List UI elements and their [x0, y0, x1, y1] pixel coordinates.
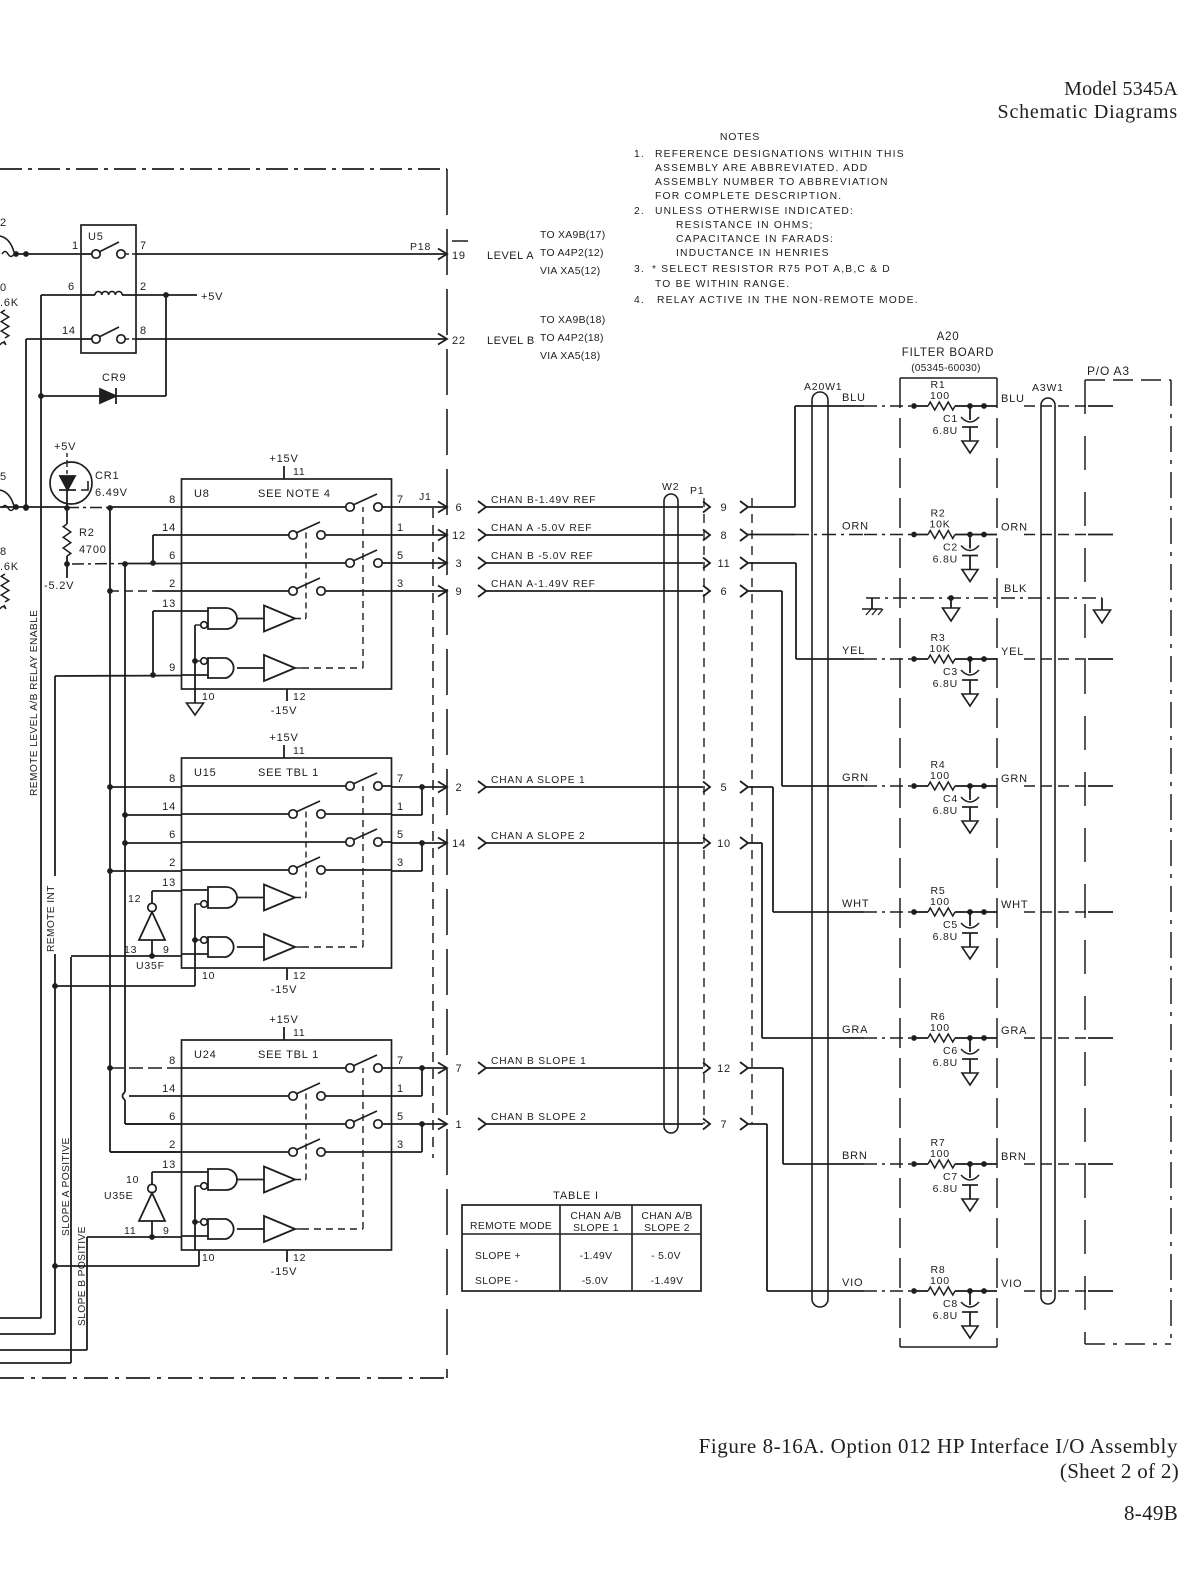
- svg-text:ORN: ORN: [1001, 522, 1028, 534]
- wire: U15 pin 14 row: [125, 814, 182, 816]
- node: U8 -15V supply pin 12: [271, 689, 307, 717]
- svg-text:11: 11: [717, 558, 730, 570]
- op-amp U15 (quad analog switch box): [182, 758, 392, 968]
- resistor (left edge, .6K lower): [0, 546, 19, 609]
- svg-text:CHAN A-1.49V REF: CHAN A-1.49V REF: [491, 579, 596, 590]
- svg-text:U24: U24: [194, 1049, 217, 1061]
- wire: U8 pin 9 row: [55, 675, 182, 678]
- svg-text:YEL: YEL: [842, 645, 865, 657]
- capacitor C3 6.8U: [933, 659, 979, 694]
- wire: U24 pin 10 exit: [55, 1250, 199, 1266]
- svg-text:14: 14: [452, 838, 466, 850]
- wire: U15 pin 9 row: [71, 953, 182, 959]
- wire: U8 pin 14 drop to pin 6 row: [150, 535, 181, 566]
- svg-text:10: 10: [202, 691, 215, 703]
- svg-text:CAPACITANCE IN FARADS:: CAPACITANCE IN FARADS:: [676, 234, 834, 245]
- svg-text:BLU: BLU: [1001, 393, 1025, 405]
- svg-text:2.: 2.: [634, 206, 645, 217]
- wire: LEVEL A row (U5 pin7 to P18-19): [136, 249, 447, 260]
- svg-text:.6K: .6K: [0, 561, 19, 573]
- svg-text:FILTER BOARD: FILTER BOARD: [902, 347, 994, 359]
- node: A20 filter board outline: [900, 378, 997, 1347]
- svg-text:REMOTE INT: REMOTE INT: [46, 885, 57, 952]
- svg-text:6: 6: [68, 281, 75, 293]
- wire: P1-11 to YEL row: [748, 562, 796, 564]
- svg-text:8: 8: [169, 1055, 176, 1067]
- svg-text:TABLE I: TABLE I: [553, 1190, 599, 1202]
- wire: U15 pin 2 row: [110, 870, 182, 872]
- capacitor C5 6.8U: [933, 912, 979, 947]
- svg-text:VIO: VIO: [1001, 1278, 1022, 1290]
- svg-text:12: 12: [293, 1252, 306, 1264]
- svg-text:14: 14: [162, 522, 176, 534]
- wire: U24 upper control (dashed): [295, 1179, 306, 1181]
- svg-text:10: 10: [202, 970, 215, 982]
- wire: U8 pin 10 bubble line: [192, 625, 198, 689]
- svg-text:6.8U: 6.8U: [933, 931, 958, 943]
- svg-text:8: 8: [169, 494, 176, 506]
- node: P1 connector dashed lines: [703, 498, 705, 1124]
- svg-text:11: 11: [293, 1027, 306, 1039]
- svg-text:11: 11: [293, 745, 306, 757]
- svg-text:FOR COMPLETE DESCRIPTION.: FOR COMPLETE DESCRIPTION.: [655, 191, 842, 202]
- inverter U35F: [124, 891, 182, 972]
- svg-text:REMOTE LEVEL A/B RELAY ENA: REMOTE LEVEL A/B RELAY ENABLE: [29, 610, 40, 796]
- node: U24 switch pins 2-3: [182, 1139, 392, 1156]
- svg-text:CHAN B-1.49V REF: CHAN B-1.49V REF: [491, 495, 596, 506]
- wire: REMOTE INT rail: [0, 676, 58, 1334]
- svg-text:8: 8: [721, 530, 728, 542]
- node: U24 pin labels right: [397, 1055, 404, 1151]
- wire: LEVEL B row (U5 pin8 to P18-22): [136, 334, 447, 345]
- node: U15 NAND gate upper: [182, 887, 238, 908]
- wire: REMOTE LEVEL A/B RELAY ENABLE rail: [0, 295, 41, 1318]
- wire: U15 pin 10 bubble line: [192, 904, 198, 968]
- svg-text:6.8U: 6.8U: [933, 678, 958, 690]
- svg-text:SEE TBL 1: SEE TBL 1: [258, 1049, 319, 1061]
- svg-text:6.8U: 6.8U: [933, 425, 958, 437]
- resistor R2 4700: [63, 508, 106, 564]
- svg-text:(05345-60030): (05345-60030): [911, 363, 981, 374]
- svg-text:100: 100: [930, 770, 950, 782]
- svg-text:8: 8: [140, 325, 147, 337]
- svg-text:CHAN A/B: CHAN A/B: [641, 1211, 692, 1222]
- svg-text:U35E: U35E: [104, 1190, 133, 1202]
- svg-text:U15: U15: [194, 767, 217, 779]
- svg-text:+5V: +5V: [201, 291, 223, 303]
- ground (below C2): [962, 570, 978, 582]
- svg-text:BLK: BLK: [1004, 583, 1027, 595]
- svg-text:6: 6: [169, 1111, 176, 1123]
- svg-text:12: 12: [717, 1063, 731, 1075]
- svg-text:+5V: +5V: [54, 441, 76, 453]
- svg-text:13: 13: [162, 877, 176, 889]
- svg-text:100: 100: [930, 1022, 950, 1034]
- svg-text:+15V: +15V: [269, 732, 298, 744]
- node: U5 pin labels: [62, 240, 147, 337]
- svg-text:4700: 4700: [79, 544, 107, 556]
- wire: U8 pin 13 drop to pin 9 row: [150, 611, 181, 678]
- ground (P/O A3, BLK net): [1094, 598, 1111, 623]
- node: U15 +15V supply pin 11: [269, 732, 305, 758]
- svg-text:CHAN A SLOPE 2: CHAN A SLOPE 2: [491, 831, 586, 842]
- wire: YEL row: [796, 645, 1113, 659]
- svg-text:7: 7: [397, 1055, 404, 1067]
- svg-text:SLOPE 2: SLOPE 2: [644, 1223, 690, 1234]
- svg-text:5: 5: [721, 782, 728, 794]
- svg-text:U8: U8: [194, 488, 210, 500]
- svg-text:SLOPE A POSITIVE: SLOPE A POSITIVE: [61, 1137, 72, 1236]
- resistor R7 100: [911, 1137, 987, 1168]
- svg-text:TO A4P2(18): TO A4P2(18): [540, 333, 604, 344]
- svg-text:GRN: GRN: [1001, 773, 1028, 785]
- node: U15 buffer upper: [237, 885, 295, 911]
- svg-text:CHAN A/B: CHAN A/B: [570, 1211, 621, 1222]
- svg-text:P18: P18: [410, 241, 431, 253]
- ground (below C1): [962, 441, 978, 453]
- svg-text:A20W1: A20W1: [804, 381, 842, 393]
- node: U8 switch pins 14-1: [182, 522, 392, 539]
- svg-text:6.8U: 6.8U: [933, 554, 958, 566]
- wire: SLOPE A POSITIVE rail: [0, 957, 71, 1363]
- svg-text:W2: W2: [662, 481, 679, 493]
- op-amp U24 (quad analog switch box): [182, 1040, 392, 1250]
- svg-text:TO A4P2(12): TO A4P2(12): [540, 248, 604, 259]
- svg-text:10K: 10K: [929, 643, 950, 655]
- svg-text:2: 2: [0, 217, 7, 229]
- node: U5 contact A (pins 1-7): [81, 242, 136, 258]
- svg-text:VIA XA5(18): VIA XA5(18): [540, 351, 600, 362]
- svg-text:14: 14: [162, 1083, 176, 1095]
- svg-text:1: 1: [72, 240, 79, 252]
- wire: U24 pin 8 row: [110, 1067, 182, 1069]
- node: U8 pin labels right: [397, 494, 404, 590]
- node: left-edge partial component (CR area, cut off): [0, 471, 14, 511]
- svg-text:13: 13: [124, 944, 137, 956]
- wire: CHAN B SLOPE 2 row (J1-1 to P1-7): [392, 1112, 749, 1152]
- ground (below C3): [962, 694, 978, 706]
- svg-text:CHAN A SLOPE 1: CHAN A SLOPE 1: [491, 775, 586, 786]
- node: U15 switch pins 8-7: [182, 773, 392, 790]
- resistor R3 10K: [911, 632, 987, 663]
- wire: CHAN B -5.0V REF row (J1-3 to P1-11): [392, 551, 749, 570]
- wire: BLU row: [795, 392, 1113, 406]
- inverter U35E: [104, 1172, 182, 1237]
- svg-text:TO BE WITHIN RANGE.: TO BE WITHIN RANGE.: [655, 279, 790, 290]
- node: U8 NAND gate lower: [182, 658, 234, 678]
- svg-text:2: 2: [169, 1139, 176, 1151]
- svg-text:* SELECT RESISTOR R75 POT A,B,: * SELECT RESISTOR R75 POT A,B,C & D: [652, 264, 891, 275]
- svg-text:12: 12: [452, 530, 466, 542]
- node: destination text TO XA9B(17)...: [540, 230, 605, 277]
- svg-text:C6: C6: [943, 1045, 958, 1057]
- capacitor C8 6.8U: [933, 1291, 979, 1326]
- wire: U5 pin14 row: [26, 338, 81, 340]
- wire: CHAN B SLOPE 1 row (J1-7 to P1-12): [392, 1056, 749, 1096]
- svg-text:14: 14: [62, 325, 76, 337]
- wire: U8 pin 6 row: [72, 563, 125, 566]
- node: U15 -15V supply pin 12: [271, 968, 307, 996]
- svg-text:LEVEL B: LEVEL B: [487, 335, 535, 347]
- ground (below C8): [962, 1326, 978, 1338]
- node: U24 buffer upper: [237, 1167, 295, 1193]
- wire: U5 pin1 row from left edge: [14, 253, 81, 255]
- resistor R6 100: [911, 1011, 987, 1042]
- node: P/O A3 box: [1085, 364, 1171, 1344]
- svg-text:SEE TBL 1: SEE TBL 1: [258, 767, 319, 779]
- capacitor C1 6.8U: [933, 406, 979, 441]
- node: U15 pin labels right: [397, 773, 404, 869]
- wire: CHAN A -5.0V REF row (J1-12 to P1-8): [392, 523, 749, 542]
- ground (below C7): [962, 1199, 978, 1211]
- svg-text:WHT: WHT: [842, 898, 869, 910]
- svg-text:CR1: CR1: [95, 470, 119, 482]
- svg-text:9: 9: [456, 586, 463, 598]
- svg-text:3: 3: [397, 578, 404, 590]
- svg-text:1: 1: [397, 1083, 404, 1095]
- node: vertical label SLOPE B POSITIVE: [76, 1220, 86, 1328]
- node: U8 buffer lower: [237, 655, 295, 681]
- svg-text:9: 9: [721, 502, 728, 514]
- wire: U8 pin 8 row (CR1 node): [0, 504, 182, 510]
- wire: ORN row: [842, 521, 1113, 535]
- svg-text:CHAN B SLOPE 1: CHAN B SLOPE 1: [491, 1056, 587, 1067]
- svg-text:6.49V: 6.49V: [95, 487, 128, 499]
- svg-text:A20: A20: [937, 331, 960, 343]
- svg-text:2: 2: [169, 857, 176, 869]
- svg-text:-1.49V: -1.49V: [651, 1276, 684, 1287]
- svg-text:UNLESS OTHERWISE INDICATED:: UNLESS OTHERWISE INDICATED:: [655, 206, 854, 217]
- wire: GRN row: [782, 772, 1113, 786]
- node: junction dot +5V/CR9: [163, 292, 169, 298]
- wire: U15 lower control (dashed): [295, 946, 302, 948]
- svg-text:ASSEMBLY ARE ABBREVIATED. ADD: ASSEMBLY ARE ABBREVIATED. ADD: [655, 163, 868, 174]
- svg-text:4.: 4.: [634, 295, 645, 306]
- capacitor C2 6.8U: [933, 535, 979, 570]
- svg-text:8-49B: 8-49B: [1124, 1501, 1178, 1525]
- svg-text:CHAN B -5.0V REF: CHAN B -5.0V REF: [491, 551, 593, 562]
- svg-text:12: 12: [293, 691, 306, 703]
- svg-text:6: 6: [456, 502, 463, 514]
- wire: BRN row: [783, 1150, 1113, 1164]
- svg-text:SLOPE -: SLOPE -: [475, 1276, 518, 1287]
- svg-text:U5: U5: [88, 231, 104, 243]
- svg-text:2: 2: [140, 281, 147, 293]
- svg-text:A3W1: A3W1: [1032, 382, 1064, 394]
- node: U15 pin labels left: [162, 773, 176, 889]
- ground (U8 pin 10): [187, 689, 204, 715]
- wire: U8 pin 2 row (dashed from rail A): [110, 590, 155, 592]
- node: U8 switch pins 6-5: [182, 550, 392, 567]
- svg-text:NOTES: NOTES: [720, 131, 760, 143]
- diode CR1 (zener, 6.49V): [50, 462, 128, 504]
- svg-text:RELAY ACTIVE IN THE NON-REMO: RELAY ACTIVE IN THE NON-REMOTE MODE.: [657, 295, 919, 306]
- svg-text:R2: R2: [79, 527, 95, 539]
- wire: CR1 cathode to node: [66, 504, 68, 508]
- capacitor C7 6.8U: [933, 1164, 979, 1199]
- wire: CHAN A SLOPE 1 row (J1-2 to P1-5): [392, 775, 749, 815]
- svg-text:BLU: BLU: [842, 392, 866, 404]
- node: U8 switch pins 8-7: [182, 494, 392, 511]
- svg-text:BRN: BRN: [842, 1150, 868, 1162]
- resistor R1 100: [911, 379, 987, 410]
- svg-text:7: 7: [721, 1119, 728, 1131]
- svg-text:10K: 10K: [929, 519, 950, 531]
- svg-text:100: 100: [930, 390, 950, 402]
- node: U15 NAND gate lower: [182, 937, 234, 957]
- wire: U24 pin 6 row: [125, 1123, 182, 1125]
- node: U8 NAND gate upper: [182, 608, 238, 629]
- node: U24 NAND gate upper: [182, 1169, 238, 1190]
- wire: +5V dashed lead into CR1: [66, 453, 68, 463]
- svg-text:5: 5: [397, 550, 404, 562]
- svg-text:6.8U: 6.8U: [933, 1310, 958, 1322]
- node: U24 buffer lower: [237, 1216, 295, 1242]
- svg-text:100: 100: [930, 896, 950, 908]
- ground (below C6): [962, 1073, 978, 1085]
- svg-text:7: 7: [397, 773, 404, 785]
- svg-text:3: 3: [397, 857, 404, 869]
- svg-text:0: 0: [0, 282, 7, 294]
- svg-text:1: 1: [397, 801, 404, 813]
- node: J1 connector dashed line: [432, 508, 434, 1158]
- wire: rail B (R2 node distribution): [122, 561, 181, 1124]
- node: P18 pin 19 / LEVEL A: [450, 241, 534, 262]
- wire: P1-9 to BLU row: [748, 506, 795, 508]
- node: U8 +15V supply pin 11: [269, 453, 305, 479]
- svg-text:C7: C7: [943, 1171, 958, 1183]
- node: U8 buffer upper: [237, 606, 295, 632]
- wire: U15 pin 8 row: [110, 786, 182, 788]
- node: P18 pin 22 / LEVEL B: [450, 330, 535, 347]
- svg-text:2: 2: [169, 578, 176, 590]
- wire: GRA row: [762, 1024, 1113, 1038]
- svg-text:13: 13: [162, 1159, 176, 1171]
- resistor R5 100: [911, 885, 987, 916]
- wire: U5 pin2 to +5V node: [136, 294, 197, 296]
- node: NOTES block: [634, 131, 919, 306]
- wire: P1-6 to GRN row riser: [748, 590, 782, 592]
- wire: U8 upper control (dashed): [295, 618, 306, 620]
- svg-text:12: 12: [128, 893, 141, 905]
- svg-text:-15V: -15V: [271, 1266, 297, 1278]
- svg-text:BRN: BRN: [1001, 1151, 1027, 1163]
- diode CR9: [38, 295, 166, 404]
- svg-text:REMOTE MODE: REMOTE MODE: [470, 1221, 552, 1232]
- svg-text:6.8U: 6.8U: [933, 1057, 958, 1069]
- node: U24 -15V supply pin 12: [271, 1250, 307, 1278]
- resistor R8 100: [911, 1264, 987, 1295]
- wire: P1-12 to BRN row riser: [748, 1067, 783, 1069]
- svg-text:SLOPE B POSITIVE: SLOPE B POSITIVE: [77, 1226, 88, 1326]
- svg-text:SLOPE +: SLOPE +: [475, 1251, 521, 1262]
- svg-text:3.: 3.: [634, 264, 645, 275]
- svg-text:CHAN B SLOPE 2: CHAN B SLOPE 2: [491, 1112, 587, 1123]
- svg-text:11: 11: [124, 1225, 137, 1237]
- wire: U24 pin 9 row: [87, 1234, 182, 1240]
- node: U15 switch pins 14-1: [182, 801, 392, 818]
- svg-text:100: 100: [930, 1148, 950, 1160]
- wire: P1-8 to ORN row: [748, 534, 795, 536]
- svg-text:7: 7: [397, 494, 404, 506]
- svg-text:22: 22: [452, 335, 466, 347]
- svg-text:10: 10: [126, 1174, 139, 1186]
- svg-text:WHT: WHT: [1001, 899, 1028, 911]
- wire: assembly border bottom (dash-dot): [0, 1377, 447, 1379]
- wire: U24 pin 2 row: [110, 1151, 182, 1153]
- svg-text:100: 100: [930, 1275, 950, 1287]
- svg-text:-5.2V: -5.2V: [44, 580, 74, 592]
- node: U5 contact B (pins 14-8): [81, 327, 136, 343]
- svg-text:P1: P1: [690, 485, 704, 497]
- wire: SLOPE B POSITIVE rail: [0, 1237, 87, 1350]
- wire: BLK ground row: [866, 583, 1102, 598]
- ground (chassis, left of board): [862, 598, 883, 615]
- node: U15 switch pins 6-5: [182, 829, 392, 846]
- svg-text:.6K: .6K: [0, 297, 19, 309]
- resistor R4 100: [911, 759, 987, 790]
- svg-text:6.8U: 6.8U: [933, 1183, 958, 1195]
- svg-text:-15V: -15V: [271, 984, 297, 996]
- wire: U15 pin 10 exit: [55, 968, 195, 986]
- svg-text:8: 8: [0, 546, 7, 558]
- svg-text:J1: J1: [419, 491, 432, 503]
- svg-text:5: 5: [397, 829, 404, 841]
- ground (inside filter board, BLK net): [943, 595, 960, 621]
- node: vertical label REMOTE INT: [46, 876, 56, 954]
- svg-text:C4: C4: [943, 793, 958, 805]
- wire: WHT row: [773, 898, 1113, 912]
- svg-text:ASSEMBLY NUMBER TO ABBREVIATIO: ASSEMBLY NUMBER TO ABBREVIATION: [655, 177, 889, 188]
- svg-text:INDUCTANCE IN HENRIES: INDUCTANCE IN HENRIES: [676, 248, 830, 259]
- wire: U24 lower control (dashed): [295, 1228, 302, 1230]
- capacitor C6 6.8U: [933, 1038, 979, 1073]
- svg-text:CHAN A -5.0V REF: CHAN A -5.0V REF: [491, 523, 592, 534]
- svg-text:6: 6: [169, 829, 176, 841]
- wire: U8 lower control (dashed): [295, 667, 302, 669]
- svg-text:+15V: +15V: [269, 453, 298, 465]
- svg-text:YEL: YEL: [1001, 646, 1024, 658]
- svg-text:8: 8: [169, 773, 176, 785]
- wire: CHAN B-1.49V REF row (J1-6 to P1-9): [392, 495, 749, 514]
- capacitor C4 6.8U: [933, 786, 979, 821]
- svg-text:U35F: U35F: [136, 960, 165, 972]
- svg-text:10: 10: [717, 838, 731, 850]
- relay U5: [81, 225, 136, 353]
- svg-text:9: 9: [163, 1225, 170, 1237]
- node: A20 FILTER BOARD title: [902, 331, 994, 374]
- node: U24 +15V supply pin 11: [269, 1014, 305, 1040]
- svg-text:SEE NOTE 4: SEE NOTE 4: [258, 488, 331, 500]
- svg-text:GRA: GRA: [842, 1024, 868, 1036]
- svg-text:+15V: +15V: [269, 1014, 298, 1026]
- svg-text:TO XA9B(17): TO XA9B(17): [540, 230, 605, 241]
- svg-text:-1.49V: -1.49V: [580, 1251, 613, 1262]
- svg-text:C8: C8: [943, 1298, 958, 1310]
- node: cable A20W1: [804, 381, 842, 1307]
- ground (below C5): [962, 947, 978, 959]
- svg-text:C1: C1: [943, 413, 958, 425]
- svg-text:6.8U: 6.8U: [933, 805, 958, 817]
- svg-text:2: 2: [456, 782, 463, 794]
- node: U24 pin labels left: [162, 1055, 176, 1171]
- svg-text:1: 1: [397, 522, 404, 534]
- wire: U24 pin 14 row: [129, 1095, 182, 1097]
- wire: VIO row: [767, 1277, 1113, 1291]
- op-amp U8 (quad analog switch box): [182, 479, 392, 689]
- svg-text:C3: C3: [943, 666, 958, 678]
- wire: U15 upper control (dashed): [295, 897, 306, 899]
